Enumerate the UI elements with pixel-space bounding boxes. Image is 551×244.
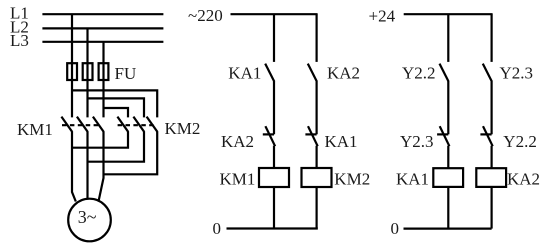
svg-text:Y2.2: Y2.2 bbox=[503, 132, 537, 151]
svg-text:KA2: KA2 bbox=[221, 132, 254, 151]
svg-text:0: 0 bbox=[391, 219, 400, 238]
svg-text:3~: 3~ bbox=[78, 207, 97, 227]
svg-text:Y2.3: Y2.3 bbox=[500, 64, 534, 83]
svg-text:L3: L3 bbox=[10, 31, 29, 50]
svg-text:0: 0 bbox=[213, 219, 222, 238]
svg-text:KA2: KA2 bbox=[507, 170, 540, 189]
svg-text:~220: ~220 bbox=[188, 6, 223, 25]
svg-text:Y2.2: Y2.2 bbox=[402, 64, 436, 83]
svg-text:FU: FU bbox=[115, 64, 137, 83]
svg-text:KM2: KM2 bbox=[334, 170, 370, 189]
svg-text:KM2: KM2 bbox=[165, 119, 201, 138]
svg-text:KA1: KA1 bbox=[228, 64, 261, 83]
svg-text:KA1: KA1 bbox=[325, 132, 358, 151]
svg-text:KA2: KA2 bbox=[327, 64, 360, 83]
svg-text:+24: +24 bbox=[369, 7, 396, 26]
svg-text:KA1: KA1 bbox=[396, 170, 429, 189]
svg-text:KM1: KM1 bbox=[17, 120, 53, 139]
svg-text:KM1: KM1 bbox=[220, 170, 256, 189]
svg-text:Y2.3: Y2.3 bbox=[400, 132, 434, 151]
